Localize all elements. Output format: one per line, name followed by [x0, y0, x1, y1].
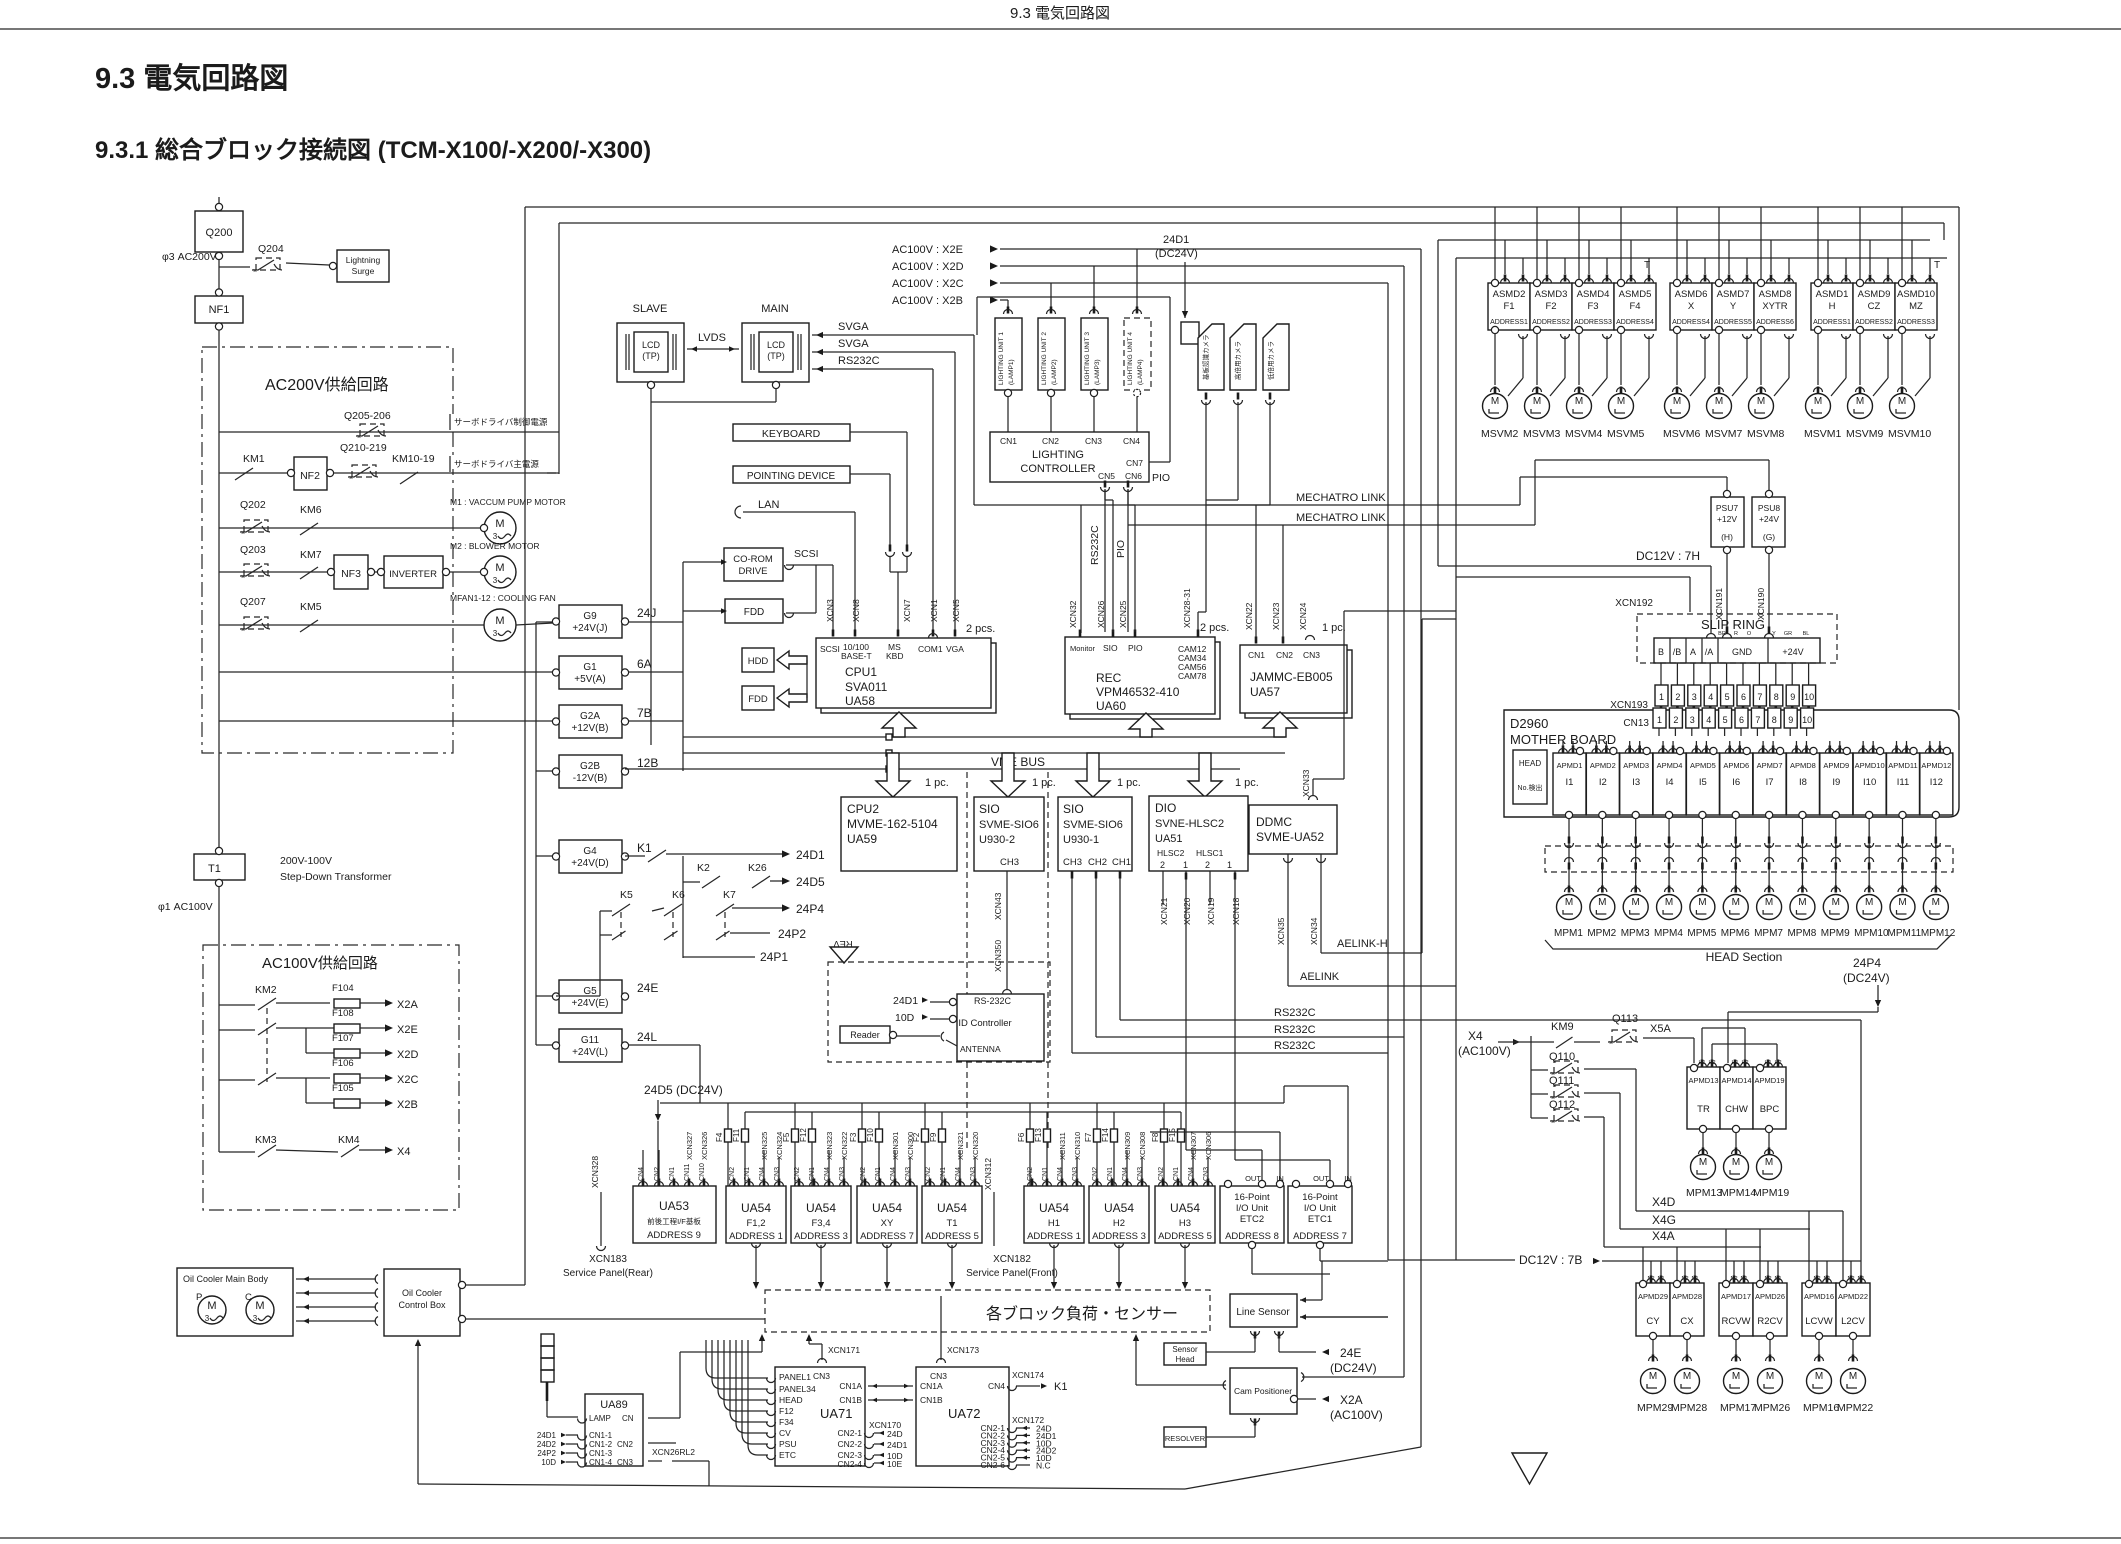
wires lamps to controller: [1007, 397, 1009, 433]
wire ASMD6 to motor: [1676, 334, 1678, 386]
wire UA54 T1 bottom arrow: [948, 1243, 957, 1248]
hollow arrow CPU1: [882, 712, 916, 737]
svg-text:XCN182: XCN182: [993, 1254, 1031, 1265]
svg-text:UA54: UA54: [872, 1201, 902, 1215]
svg-text:各ブロック負荷・センサー: 各ブロック負荷・センサー: [986, 1304, 1178, 1323]
svg-text:PSU: PSU: [779, 1439, 796, 1449]
svg-text:F7: F7: [1084, 1132, 1093, 1142]
svg-text:ETC1: ETC1: [1308, 1214, 1332, 1225]
svg-text:(LAMP4): (LAMP4): [1137, 359, 1144, 385]
svg-text:M: M: [495, 562, 504, 574]
svg-text:3: 3: [493, 576, 498, 585]
svg-text:CN1B: CN1B: [920, 1395, 943, 1405]
svg-text:HDD: HDD: [748, 656, 769, 667]
svg-text:M: M: [1766, 1371, 1774, 1382]
svg-text:BR: BR: [1718, 631, 1726, 637]
svg-text:M: M: [1765, 897, 1773, 908]
wires ASMD6 risers: [1676, 207, 1678, 280]
svg-text:AELINK: AELINK: [1300, 971, 1340, 983]
svg-text:MPM5: MPM5: [1687, 928, 1716, 939]
svg-text:(DC24V): (DC24V): [1330, 1361, 1377, 1375]
svg-text:XCN18: XCN18: [1231, 897, 1241, 925]
svg-text:HEAD: HEAD: [1519, 759, 1541, 768]
svg-text:ASMD1: ASMD1: [1816, 289, 1849, 300]
svg-text:M: M: [495, 615, 504, 627]
wire UA72 CN4 K1: [1008, 1386, 1017, 1391]
UA53 top pins: [639, 1182, 648, 1186]
svg-text:Q202: Q202: [240, 499, 266, 511]
wire APMD28 to motor: [1686, 1340, 1688, 1358]
wire X4 to KM9: [1513, 1039, 1520, 1045]
svg-text:CN1-2: CN1-2: [589, 1440, 613, 1449]
motor MPM19: [1757, 1155, 1782, 1180]
wire servo main row: [219, 472, 556, 474]
svg-text:AC200V供給回路: AC200V供給回路: [265, 376, 389, 394]
svg-text:×: ×: [1609, 1040, 1613, 1047]
svg-text:Oil Cooler: Oil Cooler: [402, 1288, 442, 1298]
wire APMD29 to motor: [1652, 1340, 1654, 1358]
svg-text:SCSI: SCSI: [820, 644, 840, 654]
wire APMD17 to motor: [1735, 1340, 1737, 1358]
head motor MPM8: [1790, 895, 1815, 920]
wire cam X2A: [1290, 1395, 1297, 1402]
svg-text:(LAMP2): (LAMP2): [1051, 359, 1058, 385]
svg-text:H: H: [1829, 301, 1836, 312]
head motor MPM4: [1657, 895, 1682, 920]
svg-text:16-Point: 16-Point: [1234, 1192, 1270, 1203]
svg-text:X5A: X5A: [1650, 1023, 1671, 1035]
camera small box: [1181, 322, 1199, 344]
wires RS232C three: [1120, 1019, 1861, 1021]
wire REC PIO up: [1134, 505, 1136, 632]
wire X4G line: [1620, 1228, 1810, 1230]
wire second feeder: [1456, 576, 1690, 578]
svg-text:ASMD2: ASMD2: [1493, 289, 1526, 300]
svg-text:×: ×: [241, 530, 245, 537]
wire DC12V 7B rail: [1388, 1259, 1515, 1261]
bus junction squares: [886, 734, 892, 740]
wires ASMD5 risers: [1620, 207, 1622, 280]
svg-text:SVME-SIO6: SVME-SIO6: [979, 819, 1039, 831]
svg-text:APMD9: APMD9: [1823, 761, 1849, 770]
svg-text:CN1-4: CN1-4: [589, 1458, 613, 1467]
svg-text:XCN306: XCN306: [1204, 1132, 1213, 1160]
head driver APMD1: [1553, 753, 1586, 815]
motor oil C: [246, 1296, 274, 1324]
wire sensor head: [1206, 1351, 1255, 1353]
svg-text:ADDRESS4: ADDRESS4: [1672, 319, 1710, 326]
svg-text:24D2: 24D2: [537, 1440, 557, 1449]
svg-text:10D: 10D: [895, 1012, 915, 1024]
wire G1 row from bus: [219, 671, 553, 673]
svg-text:AC100V : X2C: AC100V : X2C: [892, 278, 964, 290]
svg-text:JAMMC-EB005: JAMMC-EB005: [1250, 670, 1333, 684]
head motor MPM6: [1723, 895, 1748, 920]
svg-text:7: 7: [1755, 715, 1760, 725]
svg-text:LIGHTING UNIT 4: LIGHTING UNIT 4: [1127, 332, 1134, 385]
svg-text:RS232C: RS232C: [1274, 1040, 1316, 1052]
wire keyboard: [850, 431, 907, 433]
wire UA54 H1 bottom arrow: [1050, 1243, 1059, 1248]
svg-text:AC100V : X2D: AC100V : X2D: [892, 261, 964, 273]
wire UA54 H2 bottom arrow: [1115, 1243, 1124, 1248]
head motor MPM3: [1623, 895, 1648, 920]
FDD box 2: [742, 686, 774, 710]
motor MPM13: [1691, 1155, 1716, 1180]
svg-text:×: ×: [1551, 1119, 1555, 1126]
slip ring cells: [1654, 638, 1820, 663]
svg-text:MPM4: MPM4: [1654, 928, 1683, 939]
svg-text:F10: F10: [866, 1128, 875, 1142]
wire APMD10 to motor: [1868, 819, 1870, 889]
DDMC board: [1249, 805, 1337, 854]
svg-text:KM3: KM3: [255, 1134, 277, 1146]
UA72 CN2 outputs: [1008, 1428, 1017, 1433]
svg-text:X2A: X2A: [1340, 1393, 1363, 1407]
svg-text:G2A: G2A: [580, 711, 600, 722]
svg-text:K26: K26: [748, 862, 767, 874]
16 point IO unit ETC1: [1288, 1186, 1352, 1243]
svg-text:(H): (H): [1721, 532, 1733, 542]
svg-text:CN5: CN5: [1098, 471, 1115, 481]
ASMD rail 240: [1438, 239, 1930, 241]
svg-text:I7: I7: [1766, 777, 1774, 788]
svg-text:Step-Down Transformer: Step-Down Transformer: [280, 871, 392, 883]
servo motor MSVM4: [1567, 394, 1592, 419]
svg-text:I3: I3: [1632, 777, 1640, 788]
wire mechatro link 2: [1282, 525, 1284, 640]
svg-text:LCVW: LCVW: [1805, 1316, 1832, 1327]
svg-text:OUT: OUT: [1245, 1174, 1261, 1183]
svg-text:ADDRESS 3: ADDRESS 3: [1092, 1231, 1146, 1242]
svg-text:SIO: SIO: [979, 802, 1000, 816]
svg-text:XCN174: XCN174: [1012, 1370, 1044, 1380]
wire blower row: [219, 571, 484, 573]
wire UA54 XY bottom arrow: [883, 1243, 892, 1248]
sensor head box: [1164, 1343, 1206, 1365]
svg-text:8: 8: [1774, 692, 1779, 702]
svg-text:INVERTER: INVERTER: [389, 569, 437, 580]
svg-text:DIO: DIO: [1155, 801, 1176, 815]
svg-text:MFAN1-12 : COOLING FAN: MFAN1-12 : COOLING FAN: [450, 593, 556, 603]
svg-text:MSVM2: MSVM2: [1481, 428, 1519, 440]
head driver APMD11: [1887, 753, 1920, 815]
svg-text:UA58: UA58: [845, 694, 875, 708]
wire ASMD3 to motor: [1536, 334, 1538, 386]
svg-text:M: M: [1856, 396, 1864, 407]
wire APMD5 to motor: [1701, 819, 1703, 889]
head driver APMD13: [1687, 1067, 1720, 1129]
svg-text:T: T: [1644, 260, 1650, 271]
head motor MPM9: [1823, 895, 1848, 920]
svg-text:CO-ROM: CO-ROM: [733, 554, 773, 565]
wire APMD6 to motor: [1735, 819, 1737, 889]
svg-text:(DC24V): (DC24V): [1155, 248, 1198, 260]
transformer T1: [194, 854, 245, 880]
svg-text:ASMD8: ASMD8: [1759, 289, 1792, 300]
svg-text:XCN20: XCN20: [1182, 897, 1192, 925]
wires ASMD4 risers: [1578, 207, 1580, 280]
svg-text:Q200: Q200: [206, 227, 233, 239]
svg-text:MPM26: MPM26: [1754, 1402, 1790, 1414]
wire ASMD4 to motor: [1578, 334, 1580, 386]
svg-text:MECHATRO LINK: MECHATRO LINK: [1296, 492, 1386, 504]
hollow arrow DIO: [1188, 753, 1222, 797]
svg-text:H1: H1: [1048, 1218, 1060, 1229]
svg-text:AELINK-H: AELINK-H: [1337, 938, 1388, 950]
display MAIN LCD: [742, 323, 809, 382]
svg-text:APMD17: APMD17: [1721, 1292, 1751, 1301]
svg-text:ADDRESS1: ADDRESS1: [1490, 319, 1528, 326]
svg-text:RS232C: RS232C: [838, 355, 880, 367]
motor MPM14: [1724, 1155, 1749, 1180]
svg-text:Control Box: Control Box: [398, 1300, 446, 1310]
UA53 board: [633, 1186, 716, 1243]
wire ASMD10 to motor: [1901, 334, 1903, 386]
wire XCN33: [1309, 796, 1318, 800]
FDD box 1: [725, 599, 783, 623]
svg-text:24J: 24J: [637, 606, 656, 620]
svg-text:BASE-T: BASE-T: [841, 651, 872, 661]
wire AELINK: [1288, 985, 1456, 987]
svg-text:F3: F3: [849, 1132, 858, 1142]
svg-text:KM7: KM7: [300, 549, 322, 561]
UA54 board XY: [857, 1186, 917, 1243]
svg-text:K1: K1: [1054, 1381, 1067, 1393]
svg-text:M: M: [1598, 897, 1606, 908]
svg-text:XCN3: XCN3: [825, 599, 835, 622]
wire T1 down: [218, 886, 220, 1152]
svg-text:UA54: UA54: [1039, 1201, 1069, 1215]
wire cooling fan row: [219, 624, 484, 626]
svg-text:9.3 電気回路図: 9.3 電気回路図: [1010, 5, 1110, 22]
svg-text:UA54: UA54: [806, 1201, 836, 1215]
svg-text:M: M: [1698, 897, 1706, 908]
wire UA54 F1,2 bottom arrow: [752, 1243, 761, 1248]
svg-text:M: M: [1757, 396, 1765, 407]
head motor MPM2: [1590, 895, 1615, 920]
wires cameras down: [1205, 402, 1207, 612]
svg-text:F105: F105: [332, 1083, 354, 1094]
svg-text:(AC100V): (AC100V): [1458, 1044, 1511, 1058]
svg-text:F13: F13: [1034, 1128, 1043, 1142]
svg-text:(AC100V): (AC100V): [1330, 1408, 1383, 1422]
svg-text:APMD6: APMD6: [1723, 761, 1749, 770]
wires DDMC down: [1287, 854, 1289, 986]
HEAD No box: [1513, 750, 1547, 804]
svg-text:10D: 10D: [541, 1458, 556, 1467]
svg-text:Lightning: Lightning: [346, 255, 381, 265]
UA54 board T1: [922, 1186, 982, 1243]
motor MPM22: [1841, 1369, 1866, 1394]
svg-text:APMD10: APMD10: [1855, 761, 1885, 770]
wires 7B risers: [1650, 1261, 1652, 1279]
svg-text:XCN350: XCN350: [993, 940, 1003, 972]
servo motor MSVM9: [1848, 394, 1873, 419]
lighting controller box: [990, 432, 1149, 482]
svg-text:F1: F1: [1503, 301, 1514, 312]
svg-text:MZ: MZ: [1909, 301, 1923, 312]
svg-text:UA59: UA59: [847, 832, 877, 846]
wire slave drop: [650, 388, 652, 402]
svg-text:MSVM3: MSVM3: [1523, 428, 1561, 440]
svg-text:APMD13: APMD13: [1688, 1076, 1718, 1085]
svg-text:UA57: UA57: [1250, 685, 1280, 699]
svg-text:低倍用カメラ: 低倍用カメラ: [1266, 341, 1275, 380]
svg-text:MVME-162-5104: MVME-162-5104: [847, 817, 938, 831]
svg-text:M: M: [1732, 1157, 1740, 1168]
svg-text:M: M: [1732, 897, 1740, 908]
inverter box: [384, 556, 443, 588]
svg-text:G1: G1: [583, 662, 597, 673]
svg-text:2: 2: [1673, 715, 1678, 725]
svg-text:PANEL1: PANEL1: [779, 1372, 811, 1382]
motor MFAN: [484, 609, 516, 641]
wire Q200 top stub: [218, 197, 220, 204]
svg-text:XCN26RL2: XCN26RL2: [652, 1447, 695, 1457]
svg-text:APMD26: APMD26: [1755, 1292, 1785, 1301]
svg-text:Q210-219: Q210-219: [340, 442, 387, 454]
svg-text:4: 4: [1708, 692, 1713, 702]
wire ASMD7 to motor: [1718, 334, 1720, 386]
svg-text:T: T: [1934, 260, 1940, 271]
svg-text:HEAD: HEAD: [779, 1395, 803, 1405]
REV mark: [830, 947, 858, 963]
svg-text:APMD16: APMD16: [1804, 1292, 1834, 1301]
JAMMC board shadow: [1245, 650, 1352, 718]
wires ASMD10 risers: [1901, 207, 1903, 280]
wire lamp drops: [1050, 283, 1052, 312]
svg-text:APMD8: APMD8: [1790, 761, 1816, 770]
wire servo control row: [219, 431, 556, 433]
svg-text:24L: 24L: [637, 1030, 657, 1044]
wire ETC1 bottom to rail: [1319, 1248, 1321, 1261]
wire UA89 CN up: [648, 1417, 680, 1419]
svg-text:CN3: CN3: [617, 1458, 634, 1467]
svg-text:PANEL34: PANEL34: [779, 1384, 816, 1394]
contact KM2 pole2: [219, 1029, 255, 1031]
svg-text:H3: H3: [1179, 1218, 1191, 1229]
svg-text:XCN32: XCN32: [1068, 600, 1078, 628]
svg-text:COM1: COM1: [918, 644, 943, 654]
UA54 board H1: [1024, 1186, 1084, 1243]
power supply G9: [559, 605, 622, 638]
svg-text:8: 8: [1772, 715, 1777, 725]
svg-text:前後工程I/F基板: 前後工程I/F基板: [647, 1216, 701, 1226]
D2960 motherboard frame: [1504, 710, 1959, 817]
svg-text:I/O Unit: I/O Unit: [1236, 1203, 1269, 1214]
wire APMD12 to motor: [1935, 819, 1937, 889]
svg-text:LIGHTING UNIT 3: LIGHTING UNIT 3: [1084, 332, 1091, 385]
svg-text:CH1: CH1: [1112, 857, 1131, 868]
cam positioner box: [1230, 1368, 1297, 1414]
wire X5A to APMD13: [1643, 1037, 1694, 1039]
wire SVGA2: [812, 351, 955, 353]
svg-text:9.3 電気回路図: 9.3 電気回路図: [95, 62, 288, 95]
svg-text:X2E: X2E: [397, 1024, 418, 1036]
svg-text:I10: I10: [1863, 777, 1876, 788]
wire X2E line: [1000, 248, 1421, 250]
svg-text:CN4: CN4: [988, 1381, 1005, 1391]
head driver APMD19: [1753, 1067, 1786, 1129]
svg-text:M: M: [1898, 396, 1906, 407]
motor MPM16: [1807, 1369, 1832, 1394]
power supply G5: [559, 980, 622, 1013]
svg-text:10: 10: [1802, 715, 1812, 725]
svg-text:24P4: 24P4: [1853, 956, 1881, 970]
dash-dot frame AC200V supply: [202, 347, 453, 753]
svg-text:-12V(B): -12V(B): [573, 773, 607, 784]
wire APMD13 motor: [1702, 1133, 1704, 1151]
svg-text:10: 10: [1804, 692, 1814, 702]
svg-text:HLSC1: HLSC1: [1196, 848, 1224, 858]
power supply PSU7: [1711, 497, 1744, 547]
wire ASMD1 to motor: [1817, 334, 1819, 386]
power supply G4: [559, 840, 622, 873]
hollow arrows HDD FDD: [777, 651, 807, 669]
svg-text:XCN19: XCN19: [1206, 897, 1216, 925]
svg-text:1: 1: [1657, 715, 1662, 725]
wire 7B out: [628, 720, 683, 722]
svg-text:3: 3: [1692, 692, 1697, 702]
svg-text:CH3: CH3: [1063, 857, 1082, 868]
svg-text:M: M: [207, 1300, 216, 1312]
svg-text:2: 2: [1205, 860, 1210, 870]
svg-text:X2D: X2D: [397, 1049, 418, 1061]
wire ASMD5 to motor: [1620, 334, 1622, 386]
svg-text:ASMD9: ASMD9: [1858, 289, 1891, 300]
svg-text:M: M: [1491, 396, 1499, 407]
svg-text:MSVM10: MSVM10: [1888, 428, 1931, 440]
svg-text:3: 3: [205, 1314, 210, 1323]
vertical busbar right of servo rows: [558, 223, 560, 474]
svg-text:MPM7: MPM7: [1754, 928, 1783, 939]
svg-text:G5: G5: [583, 986, 597, 997]
svg-text:XCN33: XCN33: [1301, 769, 1311, 797]
svg-text:XCN23: XCN23: [1271, 602, 1281, 630]
lighting unit 3 box: [1081, 318, 1108, 390]
wire APMD14 motor: [1735, 1133, 1737, 1151]
circuit breaker NF1: [195, 296, 243, 323]
svg-text:X2C: X2C: [397, 1074, 418, 1086]
UA89 left pin arcs: [578, 1419, 587, 1424]
UA54 board F3,4: [791, 1186, 851, 1243]
wire XCN43 down: [1006, 871, 1008, 990]
svg-text:4: 4: [1706, 715, 1711, 725]
UA54 board H3: [1155, 1186, 1215, 1243]
svg-text:Sensor: Sensor: [1172, 1345, 1198, 1354]
svg-text:ASMD5: ASMD5: [1619, 289, 1652, 300]
svg-text:MPM8: MPM8: [1787, 928, 1816, 939]
svg-text:MECHATRO LINK: MECHATRO LINK: [1296, 512, 1386, 524]
svg-text:+24V(E): +24V(E): [572, 998, 609, 1009]
svg-text:X: X: [1688, 301, 1695, 312]
svg-text:R: R: [1734, 631, 1738, 637]
svg-text:XCN310: XCN310: [1073, 1132, 1082, 1160]
wire X4A line: [1604, 1246, 1761, 1248]
wire LCD joint drop: [650, 402, 652, 745]
dashed connector strip head: [1545, 846, 1953, 872]
svg-text:XCN1: XCN1: [929, 599, 939, 622]
wires UA54 H1 top: [1061, 1150, 1063, 1181]
svg-text:φ3 AC200V: φ3 AC200V: [162, 251, 217, 263]
head motor MPM12: [1923, 895, 1948, 920]
wire UA72 CN3 up: [937, 1359, 946, 1364]
wire control box bottom feed: [415, 1339, 421, 1346]
svg-text:9.3.1 総合ブロック接続図 (TCM-X100/-X20: 9.3.1 総合ブロック接続図 (TCM-X100/-X200/-X300): [95, 136, 651, 164]
svg-text:CN2-6: CN2-6: [980, 1460, 1005, 1470]
svg-text:Q110: Q110: [1549, 1051, 1575, 1063]
